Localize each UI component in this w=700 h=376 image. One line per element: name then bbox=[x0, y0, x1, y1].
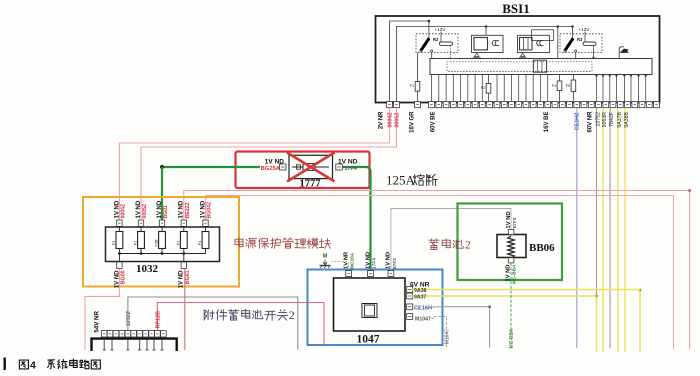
label wire 9053R bbox=[602, 112, 608, 128]
wire 9A37B yellow vertical bbox=[617, 108, 619, 352]
svg-text:RP12B: RP12B bbox=[155, 311, 161, 328]
svg-text:1V ND: 1V ND bbox=[338, 159, 358, 166]
label wire CE1HZ at BSI bbox=[575, 112, 581, 130]
labels 1V ND and wire codes above 1032 bbox=[114, 200, 212, 218]
label connector 2V NR bbox=[379, 111, 385, 129]
svg-text:F5: F5 bbox=[566, 84, 570, 88]
unit 1047 blue outline box bbox=[308, 270, 443, 346]
svg-text:BG00: BG00 bbox=[121, 270, 127, 284]
wire yellow vertical x603 bbox=[602, 108, 604, 352]
label 17F4 bbox=[345, 166, 357, 172]
wire relay K3 contact to strip bbox=[575, 52, 577, 58]
wire CE1HZ gray vertical bbox=[576, 108, 578, 348]
label 1032 bbox=[136, 263, 159, 275]
caption figure 4 text bbox=[19, 359, 100, 371]
1032 top pin row bbox=[117, 220, 209, 226]
wire 9A37 yellow drop with junction bbox=[595, 295, 598, 353]
svg-text:BG61: BG61 bbox=[185, 270, 191, 284]
svg-text:87F3: 87F3 bbox=[512, 217, 518, 228]
red cross over 1777 fuse bbox=[287, 153, 335, 182]
connector U-B outer box bbox=[518, 30, 554, 53]
BB06 bottom pin bbox=[508, 258, 514, 263]
wire blade K3 top feed bbox=[572, 27, 574, 39]
svg-text:CE1HZ: CE1HZ bbox=[575, 112, 581, 130]
label wire M1047 bbox=[415, 316, 435, 322]
node junction feeding relay K3 bbox=[571, 25, 574, 28]
label wire 7842F bbox=[609, 112, 615, 127]
wire connector U-A top feed bbox=[485, 27, 487, 36]
fuse F4 inside BSI bbox=[552, 75, 562, 102]
pin 17F4 of 1777 bbox=[336, 164, 343, 170]
svg-text:F1: F1 bbox=[410, 84, 414, 88]
svg-text:R3: R3 bbox=[577, 37, 583, 42]
fuses F2 F1 F2B F7 F4 inside 1032 bbox=[112, 226, 209, 253]
BSI bottom pin row bbox=[387, 102, 660, 108]
svg-text:1V ND: 1V ND bbox=[200, 200, 206, 218]
wires strip to BSI pins right cluster with junction dots bbox=[595, 74, 647, 101]
svg-text:9A37: 9A37 bbox=[414, 295, 427, 301]
svg-text:7842F: 7842F bbox=[609, 112, 615, 127]
BB06 battery body bbox=[497, 235, 526, 258]
svg-text:0004Z: 0004Z bbox=[387, 112, 393, 128]
labels above BB06 top pin code bbox=[512, 217, 518, 228]
label 1V ND left of 1777 bbox=[265, 159, 285, 166]
label 1V ND right of 1777 bbox=[338, 159, 358, 166]
label wire MC-BBA vertical bbox=[509, 328, 515, 348]
svg-text:F7: F7 bbox=[176, 241, 180, 245]
svg-text:M1047: M1047 bbox=[444, 329, 450, 345]
1047 top pin row bbox=[346, 271, 394, 277]
unit BB06 green outline box bbox=[458, 204, 563, 281]
svg-text:F1: F1 bbox=[134, 241, 138, 245]
svg-text:MC-BBA: MC-BBA bbox=[511, 264, 517, 284]
wire 17F4 green drop to 1047 bbox=[342, 167, 370, 270]
label 125A fuse blown note bbox=[386, 173, 437, 188]
relay K2 switch blade bbox=[420, 38, 433, 52]
label wire 9A38 bbox=[414, 288, 427, 294]
svg-text:1V ND: 1V ND bbox=[505, 265, 511, 282]
connector U-A drain arrow bbox=[473, 53, 481, 57]
svg-text:1V ND: 1V ND bbox=[506, 211, 512, 228]
svg-text:1232Z: 1232Z bbox=[126, 310, 132, 326]
labels above BB06 top pin bbox=[506, 211, 512, 228]
relay K3 label R3 bbox=[577, 37, 583, 42]
connector U-B inner window bbox=[520, 38, 533, 50]
wire BG61 red drop bbox=[184, 268, 186, 350]
wire BSI internal top bus bbox=[397, 27, 573, 102]
connector U-B drain arrow bbox=[519, 53, 527, 57]
svg-text:54V NR: 54V NR bbox=[94, 310, 101, 332]
wire M1047 dashed drop bbox=[434, 317, 447, 349]
node junction feeding strip riser bbox=[557, 25, 560, 28]
relay K2 dashed enclosure bbox=[416, 34, 458, 53]
ground symbol inside BSI bbox=[619, 47, 628, 59]
wire 0004Z pink BSI to 1032 bbox=[119, 108, 389, 220]
dashed link pin MC10A to ground bbox=[332, 262, 349, 271]
wire relay K2 coil to strip bbox=[450, 45, 452, 58]
bus strip dashed sub-module bbox=[447, 62, 592, 72]
svg-text:60V BE: 60V BE bbox=[431, 112, 437, 133]
BP switch internal pin stubs bbox=[103, 340, 164, 350]
wire 87F3 into BB06 top bbox=[510, 234, 512, 236]
battery element inside BB06 bbox=[508, 236, 514, 258]
svg-text:BSI1: BSI1 bbox=[502, 1, 529, 16]
svg-text:MC10A: MC10A bbox=[350, 252, 356, 269]
svg-text:BG01: BG01 bbox=[163, 205, 169, 219]
label 1777 bbox=[300, 179, 321, 190]
1032 bottom pin BG00 bbox=[117, 254, 122, 269]
label accessory battery switch chinese bbox=[204, 308, 295, 322]
node junction feeding connector U-A bbox=[485, 25, 488, 28]
BP switch pin row bbox=[101, 331, 166, 337]
wire 9A37 yellow bbox=[411, 295, 596, 297]
1032 bottom pin BG61 bbox=[181, 254, 186, 269]
label connector 60V NR bbox=[588, 111, 594, 133]
unit BP switch body bbox=[92, 339, 177, 351]
svg-text:BB06: BB06 bbox=[529, 242, 555, 254]
svg-text:9A37B: 9A37B bbox=[617, 111, 623, 127]
svg-text:F4: F4 bbox=[198, 241, 202, 245]
connector U-A lock glyph bbox=[492, 40, 499, 45]
svg-text:0005Z: 0005Z bbox=[394, 112, 400, 128]
svg-text:4: 4 bbox=[30, 360, 36, 372]
BB06 top pin bbox=[508, 229, 514, 234]
svg-text:1V ND: 1V ND bbox=[157, 200, 163, 218]
label power protection module chinese bbox=[235, 238, 331, 249]
svg-text:2: 2 bbox=[289, 308, 295, 322]
svg-text:BG25A: BG25A bbox=[261, 166, 281, 172]
svg-text:F2: F2 bbox=[481, 86, 485, 90]
unit 1032 orange outline box bbox=[83, 197, 239, 287]
label connector 16V BE bbox=[544, 112, 550, 133]
label wire RP12B bbox=[155, 311, 161, 328]
wire relay K3 coil to strip bbox=[592, 45, 594, 59]
svg-text:+12V: +12V bbox=[435, 27, 447, 32]
bus strip connector window bbox=[533, 60, 546, 72]
svg-text:17F4: 17F4 bbox=[371, 258, 377, 269]
label wire 1232Z bbox=[126, 310, 132, 326]
svg-text:1V ND: 1V ND bbox=[114, 200, 120, 218]
svg-text:9A38B: 9A38B bbox=[624, 111, 630, 127]
wire RP12B red branch bbox=[157, 303, 324, 345]
wire relay K2 contact to strip bbox=[431, 52, 433, 58]
label wire 9A37 bbox=[414, 295, 427, 301]
ECU BSI1 outline box bbox=[376, 16, 660, 103]
label wire 0004Z at BSI bbox=[387, 112, 393, 128]
fuse element inside 1777 bbox=[292, 164, 329, 171]
label wire 0005Z at BSI bbox=[394, 112, 400, 128]
unit 1047 inner body bbox=[334, 278, 406, 331]
label +12V relay K3 bbox=[579, 27, 591, 42]
svg-text:2: 2 bbox=[465, 238, 471, 252]
relay K2 label R2 bbox=[433, 37, 439, 42]
1047 right pin column bbox=[407, 287, 413, 320]
wire BE22Z pink to right bus bbox=[184, 189, 691, 349]
fuse F5 inside BSI bbox=[566, 75, 576, 102]
wire 0005Z pink BSI to 1032 bbox=[141, 108, 397, 220]
svg-text:125A: 125A bbox=[386, 173, 416, 188]
svg-text:MC-BBA: MC-BBA bbox=[509, 328, 515, 348]
label connector 16V GR bbox=[410, 111, 416, 133]
svg-text:1032: 1032 bbox=[136, 263, 159, 275]
svg-text:2V NR: 2V NR bbox=[379, 111, 385, 129]
svg-text:1777: 1777 bbox=[300, 179, 321, 190]
svg-text:60V NR: 60V NR bbox=[588, 111, 594, 133]
wire BG01 green drop to 1032 bbox=[161, 167, 163, 220]
labels above 1047 top pins bbox=[344, 251, 398, 269]
pin BG25A of 1777 bbox=[280, 164, 287, 170]
wire 9A38B yellow vertical bbox=[624, 108, 626, 352]
svg-text:0005Z: 0005Z bbox=[142, 203, 148, 219]
svg-text:R2: R2 bbox=[433, 37, 439, 42]
svg-text:87F3: 87F3 bbox=[392, 258, 398, 269]
wire BSI internal pin riser to relay K2 bbox=[390, 21, 429, 101]
svg-text:F2B: F2B bbox=[155, 239, 159, 246]
wire 9A38 yellow bbox=[411, 289, 640, 291]
wire 1232Z gray loop bbox=[128, 297, 298, 350]
wire MC-BBA green drop bbox=[510, 263, 512, 348]
svg-text:1047: 1047 bbox=[357, 334, 380, 346]
connector U-B lock glyph bbox=[537, 40, 544, 45]
svg-text:9053R: 9053R bbox=[602, 112, 608, 128]
label wire M1047 vertical bbox=[444, 329, 450, 345]
1032 bottom bus with junctions bbox=[118, 252, 206, 255]
svg-text:10752: 10752 bbox=[595, 112, 601, 127]
connector U-A outer box bbox=[472, 35, 504, 52]
relay K3 dashed enclosure bbox=[560, 34, 602, 53]
unit 1032 inner body bbox=[106, 227, 220, 262]
wire CE16H gray with junction bbox=[436, 305, 491, 348]
wire riser between connectors to strip bbox=[557, 27, 559, 59]
chassis ground above 1047 bbox=[320, 254, 331, 269]
svg-text:M1047: M1047 bbox=[415, 316, 431, 322]
wire 7842F gray vertical bbox=[609, 108, 611, 348]
caption bar bbox=[4, 358, 6, 371]
1047 centre window bbox=[362, 304, 377, 318]
node junction above relay K2 bbox=[428, 20, 431, 23]
label connector 54V NR bbox=[94, 310, 101, 332]
BSI internal bus strip bbox=[430, 59, 652, 75]
relay K2 coil resistor bbox=[439, 42, 452, 45]
wire blade K2 top feed bbox=[428, 21, 430, 38]
label BB06 bbox=[529, 242, 555, 254]
label BG25A bbox=[261, 166, 281, 172]
svg-text:F4: F4 bbox=[552, 84, 556, 88]
unit 1777 red outline box bbox=[236, 152, 370, 189]
label connector 60V BE bbox=[431, 112, 437, 133]
label 1047 bbox=[357, 334, 380, 346]
svg-text:0004Z: 0004Z bbox=[121, 203, 127, 219]
svg-text:CE16H: CE16H bbox=[414, 305, 432, 311]
labels below 1032 pin BG00 bbox=[114, 270, 120, 288]
wires strip to BSI pins left cluster bbox=[439, 75, 548, 102]
svg-text:16V GR: 16V GR bbox=[410, 111, 416, 133]
svg-text:17F4: 17F4 bbox=[345, 166, 357, 172]
label +12V relay K2 bbox=[435, 27, 447, 42]
wire 87F3 link 1047 to BB06 bbox=[391, 209, 511, 271]
wire 10752 gray vertical upper bbox=[596, 108, 598, 296]
connector U-A inner window bbox=[474, 38, 488, 50]
label wire 9A37B bbox=[617, 111, 623, 127]
label wire CE16H bbox=[414, 305, 436, 311]
wire BG25A green feed with junction bbox=[160, 165, 260, 169]
wire BG00 pink drop bbox=[85, 268, 119, 350]
svg-text:F2: F2 bbox=[112, 241, 116, 245]
label 6V NR bbox=[410, 282, 430, 289]
svg-text:1V ND: 1V ND bbox=[136, 200, 142, 218]
unit 1777 inner body bbox=[289, 155, 333, 178]
svg-text:1V ND: 1V ND bbox=[179, 270, 185, 288]
fuse F1 inside BSI bbox=[410, 53, 420, 102]
svg-text:16V BE: 16V BE bbox=[544, 112, 550, 133]
svg-text:9A38: 9A38 bbox=[414, 288, 427, 294]
labels below BB06 bottom pin bbox=[505, 265, 511, 282]
label BSI1 bbox=[502, 1, 529, 16]
svg-text:1V ND: 1V ND bbox=[365, 252, 371, 269]
labels below 1032 pin BG61 bbox=[179, 270, 185, 288]
svg-text:BE22Z: BE22Z bbox=[185, 202, 191, 219]
wire yellow vertical x640 to 9A38 junction bbox=[639, 289, 642, 353]
wire 60V BE pin riser bbox=[431, 75, 433, 102]
wire BG04Z pink to right bus bbox=[206, 196, 674, 350]
label battery 2 chinese bbox=[429, 238, 471, 252]
svg-text:M: M bbox=[323, 254, 328, 260]
relay K3 switch blade bbox=[564, 38, 577, 52]
label wire 9A38B bbox=[624, 111, 630, 127]
svg-text:+12V: +12V bbox=[579, 27, 591, 32]
relay K3 coil resistor bbox=[583, 42, 596, 45]
label wire 10752 bbox=[595, 112, 601, 127]
svg-text:1V ND: 1V ND bbox=[265, 159, 285, 166]
svg-text:BG04Z: BG04Z bbox=[207, 201, 213, 219]
svg-text:1V ND: 1V ND bbox=[179, 200, 185, 218]
fuse F2 inside BSI bbox=[481, 75, 491, 102]
